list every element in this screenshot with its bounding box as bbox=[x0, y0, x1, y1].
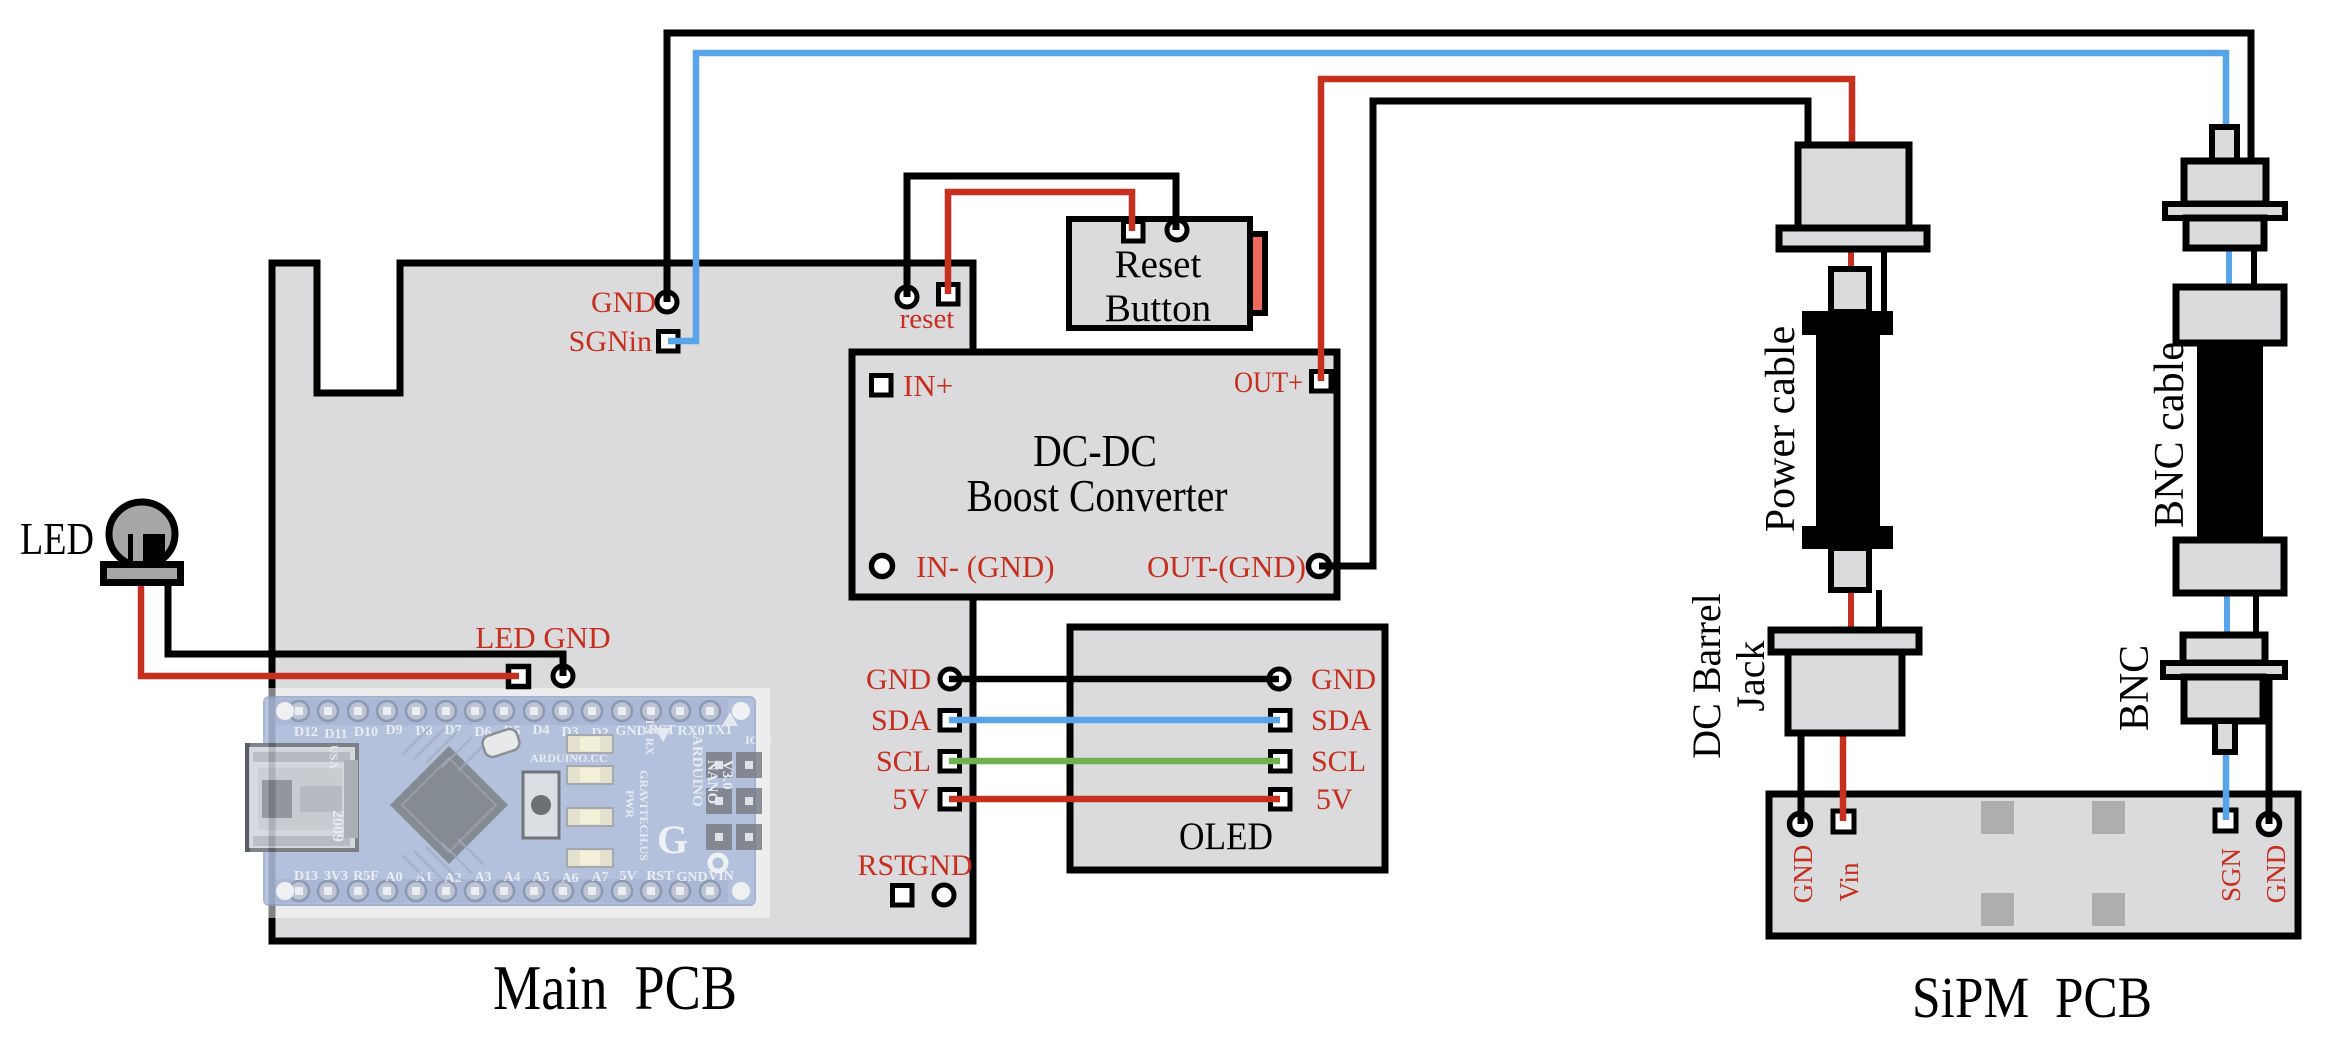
BNC connector (top) bbox=[2165, 127, 2285, 248]
label: Main PCB bbox=[493, 952, 737, 1023]
Arduino ICSP header bbox=[706, 752, 762, 850]
pad: reset square on Main PCB bbox=[939, 285, 959, 305]
Arduino LEDs (TX RX PWR L) bbox=[567, 735, 613, 867]
wire: BNC cable to lower BNC plug, black bbox=[2253, 593, 2259, 635]
pin: IN-(GND) on DC-DC bbox=[872, 556, 893, 577]
label: SGNin pad bbox=[569, 325, 652, 358]
svg-text:SGN: SGN bbox=[2216, 848, 2246, 902]
pin: GND hole on OLED bbox=[1269, 669, 1289, 689]
pin: GND hole (I2C row) on Main PCB bbox=[940, 669, 960, 689]
wire: power plug to cable segment, red bbox=[1848, 249, 1854, 272]
wire: BNC plug to cable segment, blue bbox=[2226, 248, 2232, 290]
label: SiPM SGN (rotated) bbox=[2216, 848, 2246, 902]
svg-text:SDA: SDA bbox=[871, 704, 931, 737]
label: DC-DC Boost Converter bbox=[967, 425, 1228, 521]
Arduino MCU chip (rotated square) bbox=[390, 727, 508, 883]
wire: DC Barrel Jack to SiPM Vin, red bbox=[1840, 736, 1847, 821]
svg-text:GND: GND bbox=[1311, 663, 1376, 696]
pin: GND hole on SiPM PCB right bbox=[2259, 814, 2280, 835]
svg-text:GND: GND bbox=[591, 286, 656, 319]
wire: LED cathode to GND pad, black bbox=[168, 584, 563, 676]
Arduino crystal oscillator bbox=[480, 727, 521, 759]
pad: RST on Main PCB bbox=[893, 886, 913, 906]
svg-text:OUT-(GND): OUT-(GND) bbox=[1147, 549, 1306, 584]
Arduino mini-USB connector bbox=[247, 745, 358, 850]
label: GND pin top bbox=[591, 286, 656, 319]
wire: power cable to DC Barrel Jack, red bbox=[1848, 590, 1854, 633]
wire: LED anode to LED pad, red bbox=[141, 584, 519, 676]
pin: GND hole (bottom) on Main PCB bbox=[934, 885, 954, 905]
svg-text:SCL: SCL bbox=[876, 745, 931, 778]
svg-text:GND: GND bbox=[1788, 845, 1818, 904]
svg-text:SGNin: SGNin bbox=[569, 325, 652, 358]
svg-text:SiPM PCB: SiPM PCB bbox=[1912, 965, 2152, 1030]
Power cable body bbox=[1802, 311, 1893, 549]
svg-text:Reset: Reset bbox=[1115, 243, 1202, 286]
wire: OUT-(GND) to Power cable plug, black bbox=[1319, 101, 1808, 566]
svg-text:GND: GND bbox=[866, 663, 931, 696]
Power cable upper strain relief bbox=[1831, 269, 1869, 312]
pin: OUT-(GND) on DC-DC bbox=[1309, 556, 1330, 577]
label: LED GND pads bbox=[475, 620, 610, 655]
Arduino reset pushbutton bbox=[523, 772, 559, 838]
label: RST GND bottom bbox=[857, 849, 972, 882]
wire: reset pin to Reset Button, black bbox=[907, 176, 1176, 297]
pad: 5V on OLED bbox=[1271, 790, 1291, 810]
label: LED bbox=[20, 513, 94, 564]
pin: reset hole on Main PCB bbox=[897, 287, 917, 307]
wire: BNC to SiPM SGN, blue bbox=[2223, 752, 2230, 820]
wire: GND (Main PCB) to BNC cable shield, black bbox=[667, 33, 2251, 302]
svg-text:reset: reset bbox=[900, 303, 955, 335]
Main PCB board outline bbox=[272, 263, 973, 941]
svg-text:Button: Button bbox=[1105, 287, 1211, 330]
wire: 5V Main PCB to OLED 5V, red bbox=[949, 796, 1280, 803]
svg-text:Vin: Vin bbox=[1834, 862, 1864, 901]
OLED module box bbox=[1070, 627, 1385, 870]
pin: GND hole on SiPM PCB left bbox=[1790, 814, 1811, 835]
pad: Vin on SiPM PCB bbox=[1833, 811, 1854, 832]
svg-text:IN- (GND): IN- (GND) bbox=[916, 549, 1055, 584]
pad: SGNin on Main PCB bbox=[659, 332, 679, 352]
svg-text:Main PCB: Main PCB bbox=[493, 952, 737, 1023]
label: Reset Button bbox=[1105, 243, 1211, 330]
label: DC Barrel Jack (rotated) bbox=[1684, 593, 1773, 759]
wire: GND Main PCB to OLED GND, black bbox=[949, 676, 1279, 683]
label: GND (I2C row) bbox=[866, 663, 931, 696]
label: SDA bbox=[871, 704, 931, 737]
wire: power plug to cable segment, black bbox=[1881, 249, 1887, 313]
svg-text:GND: GND bbox=[2261, 845, 2291, 904]
pad: SCL on OLED bbox=[1271, 752, 1291, 772]
label: OLED pins GND SDA SCL 5V bbox=[1311, 663, 1376, 816]
LED component (dome + base) bbox=[104, 502, 181, 583]
Reset Button module box bbox=[1069, 219, 1250, 328]
label: SiPM GND left (rotated) bbox=[1788, 845, 1818, 904]
svg-text:DC Barrel: DC Barrel bbox=[1684, 593, 1729, 759]
pad: 5V on Main PCB bbox=[940, 790, 960, 810]
label: 5V bbox=[892, 783, 929, 816]
pad: SDA on OLED bbox=[1271, 711, 1291, 731]
svg-text:Power cable: Power cable bbox=[1758, 326, 1804, 532]
wire: DC Barrel Jack to SiPM GND, black bbox=[1798, 733, 1805, 824]
svg-text:OLED: OLED bbox=[1179, 815, 1273, 858]
svg-text:BNC: BNC bbox=[2112, 645, 2158, 731]
svg-text:DC-DC: DC-DC bbox=[1033, 425, 1157, 476]
svg-text:LED: LED bbox=[20, 513, 94, 564]
svg-text:5V: 5V bbox=[1316, 783, 1353, 816]
svg-text:5V: 5V bbox=[892, 783, 929, 816]
label: OUT+ bbox=[1234, 366, 1303, 399]
svg-text:OUT+: OUT+ bbox=[1234, 366, 1303, 399]
reset button red actuator tab bbox=[1243, 234, 1265, 313]
label: SiPM GND right (rotated) bbox=[2261, 845, 2291, 904]
label: Power cable (rotated) bbox=[1758, 326, 1804, 532]
svg-text:Boost Converter: Boost Converter bbox=[967, 470, 1228, 521]
label: OUT-(GND) bbox=[1147, 549, 1306, 584]
Power cable lower strain relief bbox=[1831, 548, 1869, 590]
wire: BNC plug to cable segment, black bbox=[2251, 248, 2257, 290]
pad: SGN on SiPM PCB bbox=[2215, 810, 2236, 831]
Arduino Nano module (photo) bbox=[247, 688, 772, 918]
DC-DC boost converter module box bbox=[852, 352, 1337, 597]
label: IN- (GND) bbox=[916, 549, 1055, 584]
svg-text:RST: RST bbox=[857, 849, 912, 882]
label: BNC (rotated) bbox=[2112, 645, 2158, 731]
svg-text:IN+: IN+ bbox=[903, 368, 953, 403]
pad: SCL on Main PCB bbox=[940, 752, 960, 772]
wire: BNC cable to lower BNC plug, blue bbox=[2224, 593, 2230, 635]
DC Barrel Jack bbox=[1771, 630, 1919, 733]
wire: power cable to DC Barrel Jack, black bbox=[1876, 590, 1882, 633]
svg-text:SCL: SCL bbox=[1311, 745, 1366, 778]
wire: OUT+ to Power cable plug, red bbox=[1321, 79, 1852, 381]
pad: square terminal on Reset Button bbox=[1124, 222, 1144, 242]
BNC connector (bottom) bbox=[2163, 635, 2285, 752]
svg-text:Jack: Jack bbox=[1728, 641, 1773, 712]
pin: LED GND hole on Main PCB bbox=[553, 666, 573, 686]
label: reset pin bbox=[900, 303, 955, 335]
Power cable DC plug (top) bbox=[1779, 145, 1927, 249]
wire: SGNin (Main PCB) to BNC cable signal, blue bbox=[668, 53, 2226, 341]
wire: SCL Main PCB to OLED SCL, green bbox=[949, 758, 1280, 765]
svg-text:LED GND: LED GND bbox=[475, 620, 610, 655]
svg-text:BNC cable: BNC cable bbox=[2147, 342, 2193, 528]
pin: GND hole on Main PCB top bbox=[657, 292, 677, 312]
svg-text:SDA: SDA bbox=[1311, 704, 1371, 737]
pad: OUT+ on DC-DC bbox=[1312, 372, 1332, 392]
pad: SDA on Main PCB bbox=[940, 711, 960, 731]
SiPM PCB board bbox=[1769, 794, 2298, 936]
pad: IN+ on DC-DC bbox=[872, 376, 892, 396]
pad: LED drive pad on Main PCB bbox=[509, 667, 529, 687]
label: OLED bbox=[1179, 815, 1273, 858]
label: BNC cable (rotated) bbox=[2147, 342, 2193, 528]
label: SiPM PCB bbox=[1912, 965, 2152, 1030]
label: SCL bbox=[876, 745, 931, 778]
label: IN+ bbox=[903, 368, 953, 403]
svg-text:GND: GND bbox=[908, 849, 973, 882]
label: SiPM Vin (rotated) bbox=[1834, 862, 1864, 901]
BNC cable body bbox=[2176, 287, 2284, 593]
wire: BNC shield to SiPM GND, black bbox=[2266, 668, 2273, 824]
wire: SDA Main PCB to OLED SDA, blue bbox=[949, 717, 1280, 724]
wire: reset pad to Reset Button, red bbox=[948, 192, 1132, 294]
pin: round terminal on Reset Button bbox=[1167, 220, 1187, 240]
